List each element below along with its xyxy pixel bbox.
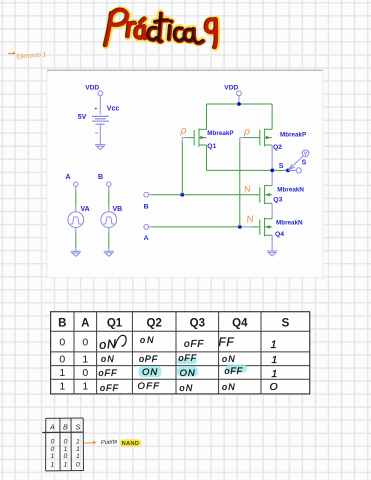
junction dot A wire	[238, 225, 242, 229]
svg-text:A: A	[49, 423, 55, 432]
svg-text:Ejercicio 1: Ejercicio 1	[16, 51, 47, 60]
input terminal A	[144, 225, 149, 230]
S terminal	[296, 168, 301, 173]
transistor Q3 MbreakN	[260, 185, 272, 204]
svg-text:NAND: NAND	[122, 441, 139, 447]
svg-text:1: 1	[51, 462, 55, 469]
svg-text:A: A	[144, 235, 149, 242]
schematic panel	[47, 70, 323, 277]
svg-text:B: B	[144, 203, 149, 210]
junction dot B wire	[180, 193, 184, 197]
svg-text:ρ: ρ	[180, 125, 187, 137]
wire Q3 source to Q4 drain	[271, 203, 273, 219]
svg-text:Q4: Q4	[232, 318, 248, 330]
svg-text:MbreakP: MbreakP	[280, 131, 306, 138]
svg-text:oN: oN	[101, 354, 115, 364]
ground under VB	[104, 251, 114, 256]
wire battery to ground	[99, 124, 101, 144]
svg-text:1: 1	[59, 381, 65, 393]
wire rail to Q1 drain	[206, 104, 208, 129]
svg-text:oN: oN	[222, 382, 236, 392]
wire A junction up to Q2 gate	[239, 142, 241, 227]
wire B to Q3 gate	[149, 194, 153, 196]
wire S to terminal	[288, 169, 296, 171]
wire Q2 source through S to Q3 drain	[271, 145, 273, 186]
svg-text:Q4: Q4	[275, 231, 284, 238]
wire Q4 source to ground	[271, 235, 273, 251]
svg-text:1: 1	[51, 453, 55, 460]
svg-text:oN: oN	[180, 383, 194, 393]
VDD rail wire	[207, 103, 273, 105]
svg-text:0: 0	[59, 353, 65, 365]
svg-text:Q3: Q3	[273, 197, 282, 204]
svg-text:S: S	[282, 318, 290, 330]
svg-text:1: 1	[76, 439, 80, 446]
svg-text:MbreakP: MbreakP	[207, 130, 233, 137]
Vcc source VDD terminal	[98, 91, 103, 96]
svg-text:oPF: oPF	[139, 354, 158, 364]
svg-text:oN: oN	[140, 335, 156, 345]
wire rail to Q2 drain	[271, 104, 273, 129]
junction dot Q2-source at S wire	[270, 169, 274, 173]
svg-text:S: S	[302, 159, 307, 166]
wire VDD terminal to rail	[238, 96, 240, 104]
svg-text:oN: oN	[99, 337, 118, 352]
voltage probe V	[289, 150, 309, 170]
svg-text:1: 1	[59, 367, 65, 379]
svg-text:MbreakN: MbreakN	[276, 219, 303, 226]
svg-text:Puerta: Puerta	[101, 439, 119, 446]
note "Ejercicio 1"	[8, 52, 15, 55]
svg-text:oFF: oFF	[225, 366, 243, 376]
wire B junction up to Q1 gate	[181, 143, 183, 195]
wire terminal to battery	[99, 96, 101, 115]
battery minus mark	[95, 132, 97, 134]
wire VA terminal to source	[75, 186, 77, 190]
S output wire	[207, 169, 289, 171]
svg-text:B: B	[58, 318, 66, 330]
NAND VDD terminal	[237, 91, 242, 96]
svg-text:S: S	[76, 423, 81, 432]
svg-text:ON: ON	[142, 367, 158, 378]
svg-text:ρ: ρ	[243, 126, 250, 138]
svg-text:1: 1	[64, 446, 68, 453]
ground under Vcc	[95, 145, 105, 150]
svg-text:0: 0	[82, 337, 88, 349]
svg-text:VA: VA	[81, 206, 90, 213]
battery Vcc plates	[92, 116, 109, 124]
wire Q1 source down to S	[206, 145, 208, 170]
svg-text:OFF: OFF	[138, 381, 161, 392]
svg-text:oFF: oFF	[179, 353, 197, 363]
svg-text:1: 1	[64, 462, 68, 469]
svg-text:1: 1	[272, 368, 279, 380]
handwritten entries	[99, 335, 279, 393]
svg-text:Q1: Q1	[107, 318, 123, 330]
wire A to Q4 gate	[149, 226, 153, 228]
title "Practica 9"	[105, 10, 217, 48]
svg-text:0: 0	[51, 446, 55, 453]
source VB pulse	[101, 212, 117, 228]
transistor Q4 MbreakN	[260, 218, 272, 237]
note "Puerta NAND"	[85, 441, 96, 444]
svg-text:VB: VB	[113, 206, 123, 213]
svg-text:A: A	[66, 174, 71, 181]
svg-text:Q1: Q1	[207, 143, 216, 150]
svg-text:MbreakN: MbreakN	[277, 186, 304, 193]
svg-text:5V: 5V	[78, 114, 87, 121]
source VB terminal	[107, 182, 111, 186]
svg-text:B: B	[98, 174, 103, 181]
svg-text:0: 0	[51, 439, 55, 446]
transistor Q1 MbreakP	[187, 129, 207, 147]
junction dot VDD rail	[237, 102, 241, 106]
transistor Q2 MbreakP	[245, 129, 273, 147]
svg-text:1: 1	[272, 354, 279, 366]
svg-text:VDD: VDD	[224, 84, 238, 91]
svg-text:0: 0	[82, 367, 88, 379]
svg-text:oFF: oFF	[100, 383, 119, 393]
svg-text:0: 0	[64, 453, 68, 460]
svg-text:oFF: oFF	[99, 368, 118, 378]
svg-text:Q3: Q3	[190, 318, 205, 330]
junction dot probe point	[286, 169, 290, 173]
svg-text:0: 0	[76, 462, 80, 469]
svg-text:FF: FF	[219, 337, 235, 349]
svg-text:1: 1	[271, 339, 278, 351]
wire VB terminal to source	[108, 186, 110, 190]
svg-text:VDD: VDD	[85, 84, 99, 91]
svg-text:Q2: Q2	[273, 144, 282, 151]
svg-text:1: 1	[82, 381, 88, 393]
source VA pulse	[68, 212, 84, 228]
svg-text:B: B	[63, 423, 68, 432]
svg-text:Vcc: Vcc	[107, 106, 120, 113]
svg-text:1: 1	[76, 453, 80, 460]
source VA terminal	[74, 182, 78, 186]
battery plus mark	[95, 107, 97, 109]
svg-text:S: S	[279, 163, 284, 170]
svg-text:0: 0	[64, 439, 68, 446]
svg-text:0: 0	[59, 337, 65, 349]
svg-text:1: 1	[82, 353, 88, 365]
input terminal B	[144, 192, 149, 197]
ground under Q4	[267, 251, 277, 256]
svg-text:oFF: oFF	[184, 339, 204, 350]
cyan highlights	[139, 359, 248, 378]
svg-text:O: O	[270, 381, 279, 393]
svg-text:ON: ON	[180, 368, 196, 379]
ground under VA	[71, 251, 81, 256]
svg-text:1: 1	[76, 446, 80, 453]
wire VA to ground	[75, 228, 77, 233]
svg-text:A: A	[81, 318, 89, 330]
wire VB to ground	[108, 228, 110, 233]
svg-text:oN: oN	[222, 354, 236, 364]
svg-text:Q2: Q2	[147, 318, 162, 330]
